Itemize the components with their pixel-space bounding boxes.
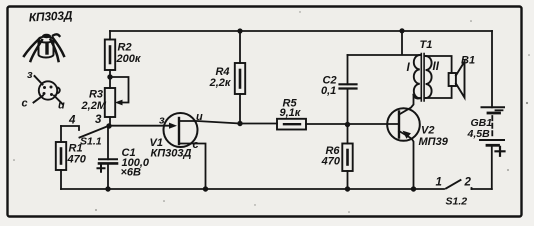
svg-text:и: и	[196, 111, 203, 123]
svg-text:с: с	[193, 139, 199, 151]
svg-text:2: 2	[464, 177, 472, 189]
wire top rail to transformer / C2	[348, 31, 420, 55]
switch S1.2	[446, 180, 461, 189]
svg-text:S1.2: S1.2	[446, 196, 468, 208]
svg-text:2,2М: 2,2М	[81, 100, 107, 112]
svg-text:0,1: 0,1	[321, 85, 336, 97]
capacitor C1 (electrolytic)	[107, 128, 109, 159]
svg-text:КП303Д: КП303Д	[151, 148, 192, 160]
svg-text:1: 1	[436, 177, 442, 189]
svg-text:470: 470	[67, 154, 87, 166]
transistor package drawing	[24, 34, 64, 61]
node dot T1 top	[399, 28, 404, 33]
svg-text:S1.1: S1.1	[80, 136, 102, 148]
node dot V1 source	[203, 186, 208, 191]
svg-text:T1: T1	[420, 39, 433, 51]
svg-text:2,2к: 2,2к	[209, 77, 232, 89]
transistor V2	[387, 108, 420, 141]
node (terminal 3 of S1.1)	[106, 123, 111, 128]
svg-text:з: з	[159, 115, 165, 127]
battery GB1	[491, 31, 493, 107]
svg-text:200к: 200к	[116, 53, 142, 65]
JFET V1	[164, 113, 198, 147]
svg-text:4: 4	[68, 115, 76, 127]
potentiometer R3	[109, 79, 111, 88]
wire R5 to V2 base	[306, 123, 399, 125]
wiper of R3	[110, 77, 129, 103]
pinout circle (bottom view)	[34, 76, 63, 104]
node dot R6 bottom	[345, 186, 350, 191]
svg-text:R3: R3	[89, 89, 103, 101]
svg-text:470: 470	[321, 156, 341, 168]
pin labels з с и	[22, 69, 66, 112]
node dot C1 bottom	[105, 186, 110, 191]
svg-text:II: II	[433, 61, 440, 73]
resistor R2	[109, 31, 111, 40]
svg-text:R2: R2	[118, 42, 132, 54]
wire battery bottom to S1.2	[472, 188, 492, 190]
svg-text:9,1к: 9,1к	[280, 107, 302, 119]
node dot C2/R6	[345, 122, 350, 127]
node dot V2 emitter	[411, 186, 416, 191]
svg-text:МП39: МП39	[419, 136, 449, 148]
svg-text:3: 3	[95, 114, 102, 126]
resistor R5	[277, 119, 306, 130]
resistor R1	[60, 126, 62, 142]
svg-text:з: з	[27, 69, 33, 81]
svg-text:КП303Д: КП303Д	[28, 8, 73, 24]
svg-text:с: с	[22, 98, 28, 110]
transformer T1	[414, 54, 432, 102]
resistor R4	[239, 31, 241, 63]
svg-text:В1: В1	[461, 55, 475, 67]
switch S1.1	[61, 126, 79, 130]
speaker B1	[426, 56, 452, 73]
node dot R2/R3	[107, 74, 112, 79]
resistor R6	[347, 125, 349, 144]
label КП303Д (title)	[28, 8, 73, 24]
bottom rail wire	[61, 188, 444, 190]
svg-text:×6В: ×6В	[121, 166, 142, 178]
svg-text:V2: V2	[421, 125, 434, 137]
top rail wire	[110, 30, 492, 32]
node dot R4 top	[237, 28, 242, 33]
capacitor C2	[347, 55, 349, 84]
node dot R4 bottom	[237, 121, 242, 126]
svg-text:4,5В: 4,5В	[467, 128, 491, 140]
svg-text:и: и	[58, 100, 65, 112]
